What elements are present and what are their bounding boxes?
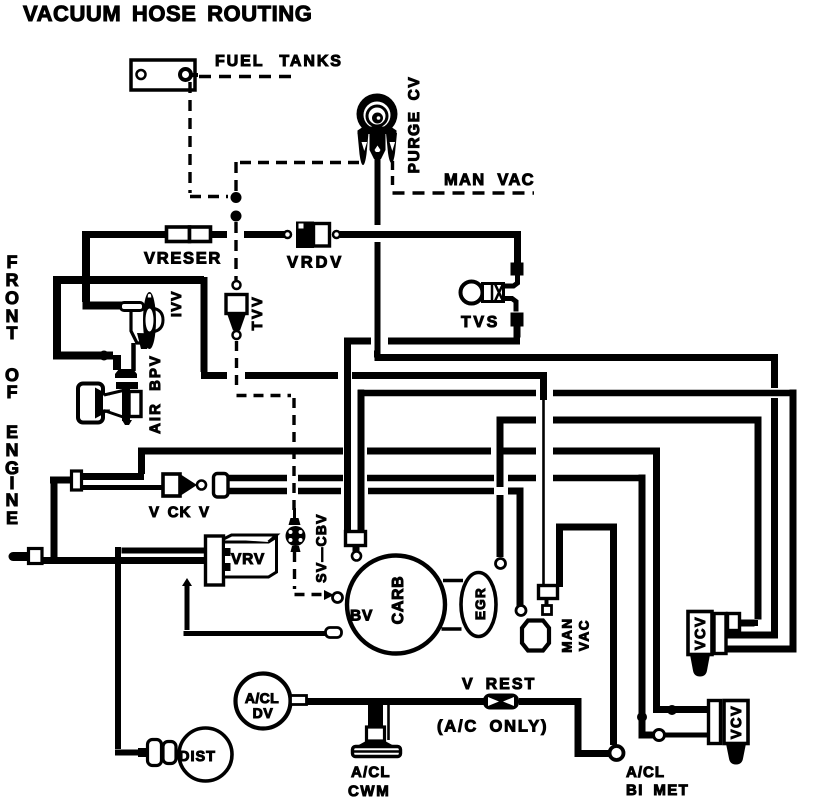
svg-text:IVV: IVV	[168, 290, 184, 317]
IVV body box	[131, 309, 147, 343]
wire VRDV to TVS corner	[340, 231, 521, 263]
wire H9 mid piece	[367, 448, 491, 455]
VCKV valve body	[163, 474, 206, 496]
VCKV inlet fitting	[72, 471, 82, 490]
wire H13 bridge (hex to bimet)	[556, 524, 614, 746]
CARB lower-left nipple pill	[326, 628, 342, 638]
wire H12 to MAN VAC corner	[508, 488, 520, 607]
TVV top ring	[233, 281, 241, 289]
IVV right bulge	[152, 308, 163, 332]
junction dot AIR BPV line	[99, 351, 109, 361]
V REST body	[483, 694, 519, 710]
wire H12 piece2	[298, 488, 341, 495]
wire H6 right piece (after twin hop) to MAN VAC drop	[352, 372, 544, 400]
svg-text:F: F	[7, 382, 18, 402]
purge CV right wing	[386, 133, 397, 163]
IVV bottom cone	[137, 333, 155, 349]
twin verticals fitting above CARB	[346, 532, 366, 546]
VRV inlet fitting	[29, 549, 43, 564]
svg-text:EGR: EGR	[473, 587, 488, 620]
wire H9 piece 3	[503, 448, 536, 455]
svg-text:V REST: V REST	[462, 676, 536, 693]
CARB-EGR neck	[442, 581, 464, 630]
svg-text:V CK V: V CK V	[149, 504, 210, 521]
wire V15 (y451 to VCV2 top)	[653, 448, 709, 710]
TVV cone	[227, 314, 246, 331]
EGR top nipple ring	[496, 559, 506, 569]
TVS body circle	[461, 282, 483, 304]
wire V19 (y393 line down to VCV1)	[726, 390, 797, 650]
wire twin vertical B (x361)	[358, 393, 365, 532]
CARB body	[347, 556, 445, 654]
svg-text:A/CL: A/CL	[351, 764, 391, 781]
wire H7 right piece	[553, 390, 797, 397]
DIST body	[179, 728, 232, 781]
A/CL CWM base	[353, 747, 401, 757]
dashed wire node to purge (horizontal y163)	[240, 161, 360, 164]
hex right nipple square	[543, 606, 552, 615]
purge CV left wing slot	[362, 142, 368, 151]
wire H7 from twin vertical to right	[358, 390, 537, 394]
AIR BPV throat lines	[104, 391, 123, 418]
wire left V2 down	[53, 276, 113, 356]
svg-text:VCV: VCV	[693, 616, 709, 650]
VRESER body boxes	[167, 227, 211, 242]
wire V18 lower	[726, 398, 778, 635]
TVS top fitting	[511, 263, 524, 276]
svg-text:O: O	[5, 288, 19, 308]
AIR BPV right can	[129, 392, 141, 417]
wire A/CL DV to V REST	[306, 698, 484, 705]
svg-text:VRESER: VRESER	[144, 250, 222, 268]
wire fitting lower branch to valve	[81, 485, 164, 490]
AIR BPV bottom nipple	[122, 420, 132, 425]
svg-text:TVS: TVS	[461, 314, 500, 331]
svg-text:DIST: DIST	[179, 749, 216, 765]
wire DIST riser line	[115, 547, 206, 753]
wire VRESER to hop	[211, 231, 227, 238]
purge CV right wing slot	[390, 142, 396, 151]
SV-CBV body	[286, 526, 306, 546]
wire H12 piece3	[368, 488, 494, 495]
wire H8 right piece	[553, 417, 762, 424]
wire TVS lower port	[504, 299, 516, 312]
label MAN VAC hex (vertical)	[560, 617, 592, 653]
TVS connector block	[483, 284, 504, 302]
dashed wire fuel tank down	[188, 82, 191, 193]
wire H10 right to corner x640	[553, 475, 646, 482]
IVV lens	[143, 292, 156, 349]
svg-text:T: T	[7, 323, 18, 343]
SV-CBV top nipple	[289, 518, 301, 525]
wire V4 (204) down and right	[201, 277, 227, 376]
svg-text:BI MET: BI MET	[626, 782, 689, 799]
wire H6 mid piece (after dashed hop)	[245, 372, 338, 379]
AIR BPV bowtie	[95, 388, 110, 419]
AIR BPV top nipple	[115, 369, 138, 389]
wire purge down lower (below VRDV line hop)	[375, 242, 381, 354]
wire H10 (upper VCKV out) piece1	[228, 475, 287, 482]
purge CV stem diamond	[375, 146, 381, 155]
wire H9 right to corner	[553, 448, 660, 455]
wire V16 (y478 to VCV2 bottom)	[639, 475, 655, 736]
svg-text:E: E	[6, 508, 18, 528]
wire VRESER left drop to IVV	[83, 231, 123, 306]
label FRONT OF ENGINE (vertical stack)	[5, 252, 19, 528]
wire VRV main line	[42, 557, 206, 564]
svg-text:VAC: VAC	[577, 619, 592, 651]
IVV lens white slit top	[148, 294, 152, 298]
svg-text:BV: BV	[350, 608, 373, 625]
DIST connector pills	[148, 740, 162, 766]
svg-text:SV—CBV: SV—CBV	[313, 513, 329, 582]
AIR BPV middle white block	[103, 396, 123, 410]
wire fitting to TVS elbow	[504, 275, 518, 286]
wire V17 right (y420 line down to VCV1 top port)	[740, 417, 759, 624]
open ring on VCV2 bottom line	[654, 730, 665, 741]
svg-text:CARB: CARB	[390, 576, 407, 625]
purge CV stem	[370, 133, 386, 159]
svg-text:A/CL: A/CL	[626, 764, 665, 781]
dashed wire down to SV-CBV	[292, 398, 295, 510]
svg-text:DV: DV	[253, 705, 274, 721]
svg-text:PURGE CV: PURGE CV	[406, 76, 423, 174]
fitting neck	[353, 546, 360, 552]
junction dot B	[231, 211, 242, 222]
hex left nipple ring	[516, 606, 526, 616]
wire hop to VRDV	[244, 231, 285, 238]
svg-text:AIR BPV: AIR BPV	[147, 354, 164, 434]
VCV1 body	[688, 612, 740, 677]
A/CL DV circle	[236, 674, 291, 729]
wire left H2 (to AIR BPV net)	[53, 276, 204, 284]
dashed wire SV-CBV elbow to BV	[295, 593, 323, 596]
wire VRV hook to CARB lower nipple	[184, 584, 327, 634]
svg-text:E: E	[6, 422, 18, 442]
junction dot on V16	[637, 712, 647, 722]
A/CL CWM flange	[355, 741, 396, 747]
VCKV left elbow from west cap	[50, 477, 72, 558]
dashed wire TVV down	[235, 341, 238, 391]
svg-text:VACUUM HOSE ROUTING: VACUUM HOSE ROUTING	[23, 1, 312, 26]
VRV left line west cap	[13, 552, 29, 561]
svg-text:N: N	[6, 440, 19, 460]
wire H10 piece3	[367, 475, 494, 482]
svg-text:F: F	[7, 252, 18, 272]
wire H12 (lower VCKV out) piece1	[228, 488, 287, 495]
A/CL DV right nipple	[291, 696, 307, 705]
dashed arrowhead at BV	[324, 590, 334, 600]
dashed wire SV-CBV down	[293, 552, 296, 589]
svg-text:CWM: CWM	[348, 783, 390, 800]
svg-text:VCV: VCV	[729, 705, 745, 739]
CARB top nipple ring	[352, 552, 361, 561]
wire V18 upper (purge line down)	[771, 354, 778, 388]
VRV body	[206, 535, 277, 585]
SV-CBV stem	[293, 508, 296, 518]
dashed wire fuel tanks right	[199, 75, 299, 78]
dashed wire elbow to node	[190, 195, 228, 198]
wire purge main horizontal H4	[374, 354, 777, 358]
dashed wire purge to MAN VAC corner	[391, 161, 394, 190]
purge CV body (concentric)	[357, 94, 398, 135]
VRDV body	[284, 222, 340, 249]
EGR body	[461, 573, 496, 637]
IVV plate	[121, 303, 144, 311]
A/CL BI MET ring	[610, 746, 624, 760]
dashed wire MAN VAC horizontal	[393, 191, 535, 194]
wire purge-net left piece (hop at purge vertical)	[347, 338, 371, 533]
TVV body	[226, 295, 247, 314]
wire H10 piece4	[508, 475, 536, 482]
purge CV collar	[358, 127, 397, 135]
dashed wire node down stub	[234, 162, 237, 192]
svg-text:FUEL TANKS: FUEL TANKS	[215, 53, 343, 70]
wire fitting to hex square	[545, 598, 549, 606]
MAN VAC fitting rect	[539, 586, 558, 599]
svg-text:TVV: TVV	[250, 295, 266, 331]
CARB BV nipple ring	[333, 593, 343, 603]
svg-text:MAN VAC: MAN VAC	[444, 171, 535, 189]
TVV bottom ring	[233, 331, 241, 339]
VCV2 body	[709, 701, 749, 765]
IVV lens white middle	[146, 309, 154, 332]
wire H10 piece2	[298, 475, 343, 482]
svg-text:(A/C ONLY): (A/C ONLY)	[437, 718, 548, 736]
MAN VAC hexagon	[522, 621, 549, 651]
dashed wire TVV elbow right	[237, 394, 292, 397]
A/CL CWM stem thin line	[387, 703, 390, 740]
wire H8 EGR corner to right	[497, 420, 537, 424]
wire ring to VCV2	[665, 733, 709, 738]
A/CL CWM base line	[353, 750, 400, 753]
wire EGR vertical upper	[497, 423, 504, 487]
VCKV outlet fitting	[214, 474, 229, 498]
TVS bottom fitting	[511, 313, 524, 327]
wire VCV1 top port	[739, 620, 758, 626]
wire H9 corner down	[80, 448, 144, 477]
wire IVV hose down	[131, 343, 136, 371]
DIST connector tab	[138, 748, 148, 757]
fuel tank sender box	[131, 60, 198, 90]
junction dot A	[231, 192, 242, 203]
svg-text:N: N	[6, 490, 19, 510]
wire TVS bottom to purge net elbow	[388, 326, 520, 341]
junction dot VCV2 top line	[667, 705, 677, 715]
AIR BPV left can	[78, 384, 103, 423]
wire VRESER line left segment	[89, 231, 167, 238]
wire H9 left segment with corner down to VCKV	[138, 448, 343, 455]
wire thin MAN VAC vertical	[542, 398, 545, 585]
purge CV left wing	[358, 133, 369, 165]
svg-text:R: R	[6, 270, 19, 290]
A/CL CWM stem box	[367, 727, 385, 741]
SV-CBV bottom nipple	[291, 546, 301, 552]
wire elbow down to AIR BPV top	[113, 355, 121, 370]
svg-text:MAN: MAN	[560, 617, 575, 653]
label A/CL DV	[245, 690, 279, 721]
wire purge down upper	[375, 152, 381, 225]
AIR BPV right bar	[122, 389, 130, 421]
A/CL CWM stem dark	[368, 704, 383, 727]
svg-text:VRDV: VRDV	[287, 254, 344, 272]
VRV hook arrow cap	[182, 578, 192, 586]
wire EGR vertical lower	[497, 495, 504, 557]
dashed wire node to TVV	[234, 222, 237, 280]
wire V REST to BI MET ring	[519, 698, 610, 754]
svg-text:VRV: VRV	[231, 551, 265, 568]
svg-text:A/CL: A/CL	[245, 690, 279, 706]
